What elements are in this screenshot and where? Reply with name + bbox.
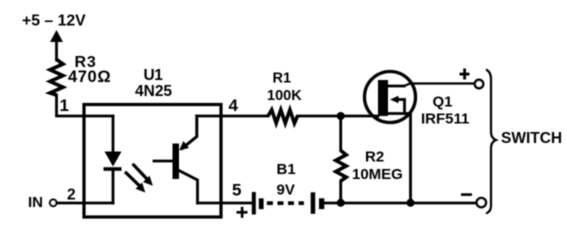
svg-text:IN: IN <box>28 194 43 211</box>
svg-text:Q1: Q1 <box>433 94 453 111</box>
svg-text:2: 2 <box>67 187 76 204</box>
svg-text:4N25: 4N25 <box>135 83 172 100</box>
svg-text:470Ω: 470Ω <box>68 68 111 86</box>
svg-text:B1: B1 <box>277 161 296 178</box>
svg-text:IRF511: IRF511 <box>421 111 469 128</box>
svg-text:U1: U1 <box>144 67 164 84</box>
svg-text:5: 5 <box>232 181 241 200</box>
svg-text:100K: 100K <box>267 88 302 104</box>
svg-text:4: 4 <box>229 96 239 115</box>
svg-text:1: 1 <box>60 96 69 115</box>
svg-text:R2: R2 <box>365 149 384 166</box>
svg-text:10MEG: 10MEG <box>352 166 403 183</box>
svg-text:9V: 9V <box>277 182 295 199</box>
svg-text:R1: R1 <box>273 71 292 87</box>
svg-text:SWITCH: SWITCH <box>501 130 562 147</box>
svg-text:+5 – 12V: +5 – 12V <box>22 12 86 29</box>
